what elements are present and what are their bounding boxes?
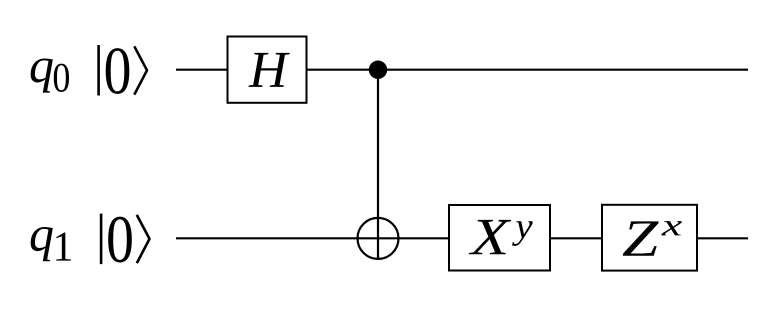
ket q1 angle bracket: [137, 215, 150, 263]
ket q0 angle bracket: [134, 46, 147, 94]
label q0 letter q: [31, 58, 53, 92]
gate H box: [228, 37, 307, 103]
ket q0 bar: [97, 45, 100, 96]
label q1 subscript 1: [56, 233, 71, 261]
label q1 letter q: [31, 227, 53, 261]
gate X^y box: [449, 205, 550, 271]
control dot: [369, 60, 387, 78]
gate X exponent y: [512, 221, 533, 246]
gate H label: [248, 53, 289, 87]
CNOT target circle: [358, 218, 399, 259]
wire q0: [176, 69, 748, 71]
ket q1 bar: [100, 214, 103, 265]
label q0 subscript 0: [54, 64, 69, 92]
wire q1: [176, 237, 748, 239]
gate X label: [469, 220, 512, 254]
gate Z exponent x: [661, 221, 681, 235]
ket q1 digit 0: [108, 217, 132, 263]
wire CNOT vertical: [377, 70, 379, 260]
gate Z^x box: [602, 205, 697, 271]
ket q0 digit 0: [106, 48, 130, 94]
gate Z label: [623, 221, 659, 255]
